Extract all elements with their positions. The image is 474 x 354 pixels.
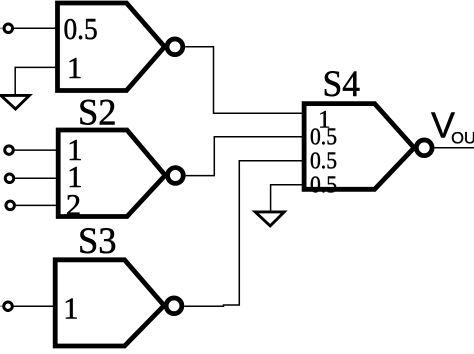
svg-text:0.5: 0.5 — [310, 147, 337, 174]
svg-text:S4: S4 — [323, 63, 361, 104]
svg-text:1: 1 — [63, 291, 78, 325]
svg-text:S3: S3 — [78, 220, 117, 261]
svg-text:0.5: 0.5 — [310, 171, 337, 198]
svg-text:0.5: 0.5 — [64, 12, 98, 46]
svg-text:OUT: OUT — [451, 129, 474, 147]
svg-text:1: 1 — [67, 51, 82, 85]
svg-text:2: 2 — [66, 188, 81, 222]
svg-text:S2: S2 — [78, 92, 117, 133]
svg-text:0.5: 0.5 — [310, 123, 337, 150]
